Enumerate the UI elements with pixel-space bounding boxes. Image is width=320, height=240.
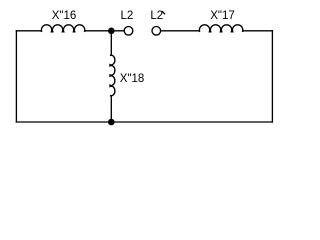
inductor X"16 <box>41 25 85 32</box>
svg-text:X"17: X"17 <box>210 10 235 22</box>
svg-text:X"16: X"16 <box>52 10 77 22</box>
wire top-left horizontal <box>16 30 41 32</box>
svg-text:X"18: X"18 <box>120 73 145 85</box>
wire bottom horizontal <box>16 121 272 123</box>
node junction bottom <box>108 119 115 126</box>
wire top-right horizontal <box>243 30 272 32</box>
label L2` prime mark <box>162 11 164 14</box>
svg-text:L2: L2 <box>121 10 134 22</box>
terminal L2` <box>152 27 161 36</box>
terminal L2 <box>124 27 133 36</box>
node junction top <box>108 28 115 35</box>
wire top middle (coil X16 to terminal L2) <box>85 30 124 32</box>
wire right vertical <box>271 31 273 122</box>
wire left vertical <box>15 31 17 122</box>
inductor X"17 <box>199 25 243 32</box>
svg-text:L2: L2 <box>150 10 163 22</box>
wire middle vertical upper <box>110 31 112 55</box>
wire from L2` to coil X17 <box>161 30 199 32</box>
inductor X"18 <box>110 55 115 96</box>
wire middle vertical lower <box>110 96 112 122</box>
